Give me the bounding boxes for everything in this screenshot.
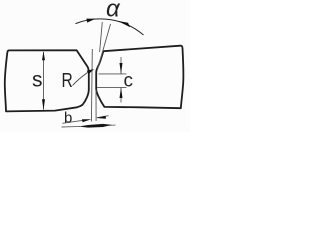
dimension line c (root face height) [120, 57, 122, 103]
lower double-spear arrowhead pair under b [79, 124, 113, 128]
lower leader line right tail [106, 124, 116, 126]
dimension line b left segment [63, 120, 84, 123]
right plate (cross-section with groove face, radius and root face) [96, 46, 183, 109]
arrowhead b right [96, 116, 106, 119]
extension line c top [99, 73, 127, 75]
svg-text:R: R [62, 69, 73, 91]
svg-text:α: α [106, 0, 121, 23]
vertex line through root gap (also left extension line for b) [90, 49, 93, 122]
arrowhead alpha left [86, 19, 95, 23]
extension line c bottom [97, 86, 127, 88]
svg-text:s: s [32, 68, 43, 91]
leader line R [73, 73, 88, 86]
arrowhead c bottom [120, 87, 123, 98]
svg-text:c: c [124, 71, 134, 92]
svg-text:b: b [64, 110, 72, 127]
arrowhead c top [120, 63, 123, 74]
extension line b right [95, 90, 97, 122]
angle dimension arc for alpha [76, 19, 144, 35]
dimension line b right segment [97, 116, 109, 118]
lower leader line left tail [62, 125, 81, 128]
dimension line s (plate thickness) [43, 52, 45, 110]
angle reference line right [97, 24, 110, 70]
arrowhead R leader [87, 69, 94, 74]
left plate (cross-section with groove face, radius and root face) [5, 50, 89, 111]
angle reference line left [100, 22, 103, 52]
arrowhead alpha right [118, 21, 130, 27]
arrowhead b left [82, 119, 91, 122]
arrowhead s top [42, 51, 45, 60]
arrowhead s bottom [42, 99, 45, 110]
